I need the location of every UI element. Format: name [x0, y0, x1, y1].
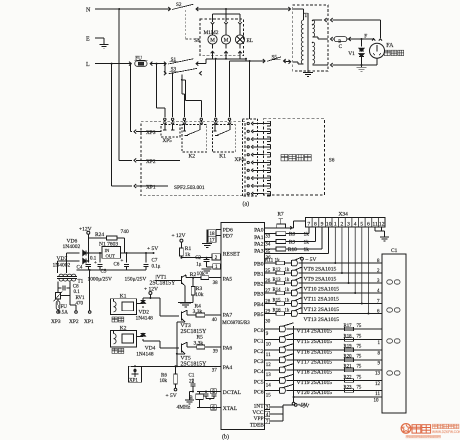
terminal +5V vfd [293, 397, 295, 402]
XP4 contact pin 6 [247, 161, 249, 163]
transformer primary winding [301, 20, 303, 64]
svg-text:4MHz: 4MHz [177, 405, 191, 411]
svg-text:FU: FU [61, 305, 68, 310]
svg-text:12: 12 [375, 382, 381, 387]
wire filament to F [347, 38, 374, 40]
transistor VT10 2SA1015 [285, 282, 292, 284]
capacitor C1b [192, 379, 194, 384]
wire motor drop M2 [225, 14, 227, 22]
transistor VT5 [181, 344, 183, 353]
wire PC2 row [264, 349, 279, 351]
K2 contact [184, 125, 186, 132]
svg-text:9: 9 [378, 361, 381, 366]
wire VT13 collector row [299, 313, 382, 315]
wire K2 to VT5 base [143, 340, 160, 342]
wire PB1 row [264, 272, 276, 274]
svg-text:XP1: XP1 [84, 319, 94, 325]
svg-text:R10: R10 [288, 247, 297, 253]
svg-text:PB2: PB2 [254, 282, 264, 288]
wire to contact c3 [182, 93, 185, 95]
svg-text:R13: R13 [273, 278, 282, 283]
svg-text:OUT: OUT [106, 254, 116, 259]
svg-text:K1: K1 [120, 294, 127, 300]
svg-text:33: 33 [265, 235, 271, 240]
svg-text:– 5V: – 5V [305, 257, 317, 263]
interlock S4 dashed [186, 38, 200, 40]
display segment pair 4 [387, 371, 393, 375]
resistor R15 [276, 302, 285, 306]
wire XP4 feed [249, 60, 251, 62]
wire XP4 pin 9 to membrane [253, 185, 264, 187]
svg-text:FU: FU [135, 55, 142, 61]
wire XP4 pin 7 to membrane [253, 169, 264, 171]
resistor R14 [276, 291, 285, 295]
svg-text:XP2: XP2 [146, 159, 156, 165]
svg-text:VT10 2SA1015: VT10 2SA1015 [304, 287, 340, 293]
svg-text:XP3: XP3 [51, 319, 61, 325]
watermark text [412, 425, 421, 433]
svg-text:IN: IN [105, 248, 111, 253]
switch S5 [263, 59, 265, 63]
diode VD2 [137, 303, 144, 305]
svg-text:17: 17 [210, 239, 216, 244]
connector XP4 box [243, 119, 258, 196]
svg-text:1k: 1k [285, 299, 290, 304]
XP4 contact pin 1 [247, 122, 249, 124]
svg-text:4: 4 [354, 221, 357, 227]
svg-text:R14: R14 [273, 288, 282, 293]
svg-text:R18: R18 [344, 334, 353, 339]
svg-text:X34: X34 [339, 211, 349, 217]
membrane switch pin 7 [264, 169, 270, 171]
wire bus to c6 and S5 [245, 58, 247, 60]
wire S2 interlock dashed [185, 10, 187, 39]
svg-text:S4: S4 [194, 38, 200, 44]
wire VT11 collector row [299, 292, 382, 294]
svg-text:25: 25 [265, 269, 271, 274]
svg-text:8: 8 [314, 221, 317, 227]
wire XP3 feed [130, 63, 132, 65]
svg-text:R6: R6 [161, 373, 167, 378]
relay K2 coil box [110, 331, 136, 347]
svg-text:75: 75 [357, 365, 362, 370]
wire E lead [95, 37, 104, 39]
wire VT14-20 emitter bus [293, 326, 295, 397]
transistor VT15 2SA1015 [279, 337, 281, 343]
svg-text:1N4148: 1N4148 [136, 351, 154, 357]
K1 contact [214, 125, 216, 132]
svg-text:VT20 2SA1015: VT20 2SA1015 [297, 390, 333, 396]
svg-text:VT16 2SA1015: VT16 2SA1015 [297, 349, 333, 355]
label gonglv [112, 317, 117, 322]
resistor R10 [276, 247, 286, 251]
svg-text:10k: 10k [160, 379, 168, 384]
svg-text:VT13 2SA1015: VT13 2SA1015 [304, 317, 340, 323]
XP5 pins [164, 125, 166, 131]
wire PA0 row [264, 227, 293, 229]
svg-text:R19: R19 [344, 345, 353, 350]
transformer T1 [57, 276, 77, 278]
svg-text:PA4: PA4 [223, 365, 233, 371]
svg-text:C1: C1 [391, 248, 398, 254]
svg-text:S2: S2 [176, 2, 182, 8]
wire XTAL row [197, 407, 221, 409]
wire primary top lead [293, 8, 304, 10]
resistor R4 [187, 314, 196, 316]
connector XP5 box [161, 125, 180, 138]
svg-text:12: 12 [266, 363, 272, 368]
svg-text:VT19 2SA1015: VT19 2SA1015 [297, 380, 333, 386]
wire -5V emitter bus [301, 263, 303, 314]
svg-text:10k: 10k [195, 292, 204, 298]
resistor R3 [192, 277, 194, 279]
wire PB5 row [264, 313, 276, 315]
fuse FU [129, 62, 131, 66]
transistor VT18 2SA1015 [279, 367, 281, 373]
svg-text:+: + [94, 261, 97, 266]
transistor VT11 2SA1015 [285, 292, 292, 294]
wire VT9 collector row [299, 272, 382, 274]
transistor VT9 2SA1015 [285, 272, 292, 274]
XP4 contact pin 9 [247, 185, 249, 187]
svg-text:VT17 2SA1015: VT17 2SA1015 [297, 359, 333, 365]
resistor R8 [276, 232, 286, 236]
wire S3 pole tail [181, 75, 183, 95]
wire T1 secondary leads [66, 253, 68, 273]
svg-text:11: 11 [375, 392, 380, 397]
pin 1 box [213, 264, 221, 269]
svg-text:150μ/25V: 150μ/25V [125, 277, 147, 283]
svg-text:1NT: 1NT [254, 404, 265, 410]
contact c2 [171, 118, 173, 120]
transistor VT8 2SA1015 [285, 262, 292, 264]
wire PB4 row [264, 303, 276, 305]
svg-text:1: 1 [334, 221, 337, 227]
resistor R16 [276, 312, 285, 316]
label cikongguan [384, 50, 390, 55]
pin 2 box [212, 254, 220, 260]
wire pin7 [270, 420, 283, 422]
svg-text:C1: C1 [189, 373, 195, 378]
wire XP2 feed [118, 8, 120, 10]
svg-text:XP5: XP5 [163, 138, 173, 144]
svg-text:SPF2.503.001: SPF2.503.001 [174, 185, 205, 191]
svg-text:R16: R16 [273, 309, 282, 314]
svg-text:N: N [86, 8, 91, 14]
pin 4 box [264, 411, 269, 416]
wire VT12 collector row [299, 303, 382, 305]
wire XP4 pin 1 to membrane [253, 123, 264, 125]
wire PA0 up to X34 [290, 226, 292, 229]
svg-text:PC4: PC4 [254, 369, 264, 375]
svg-text:1k: 1k [304, 247, 310, 253]
wire +5V rail [121, 252, 154, 254]
svg-text:PB0: PB0 [254, 262, 264, 268]
svg-text:35: 35 [265, 250, 271, 255]
regulator N1 7803 [102, 247, 121, 259]
wire VT8 collector row [299, 262, 382, 264]
pin 6 box [211, 405, 216, 410]
wire XP1 feed [111, 63, 113, 65]
wire pin3 to +5V [270, 406, 283, 408]
resistor R23 [345, 389, 354, 393]
svg-text:11: 11 [372, 221, 378, 227]
svg-text:K2: K2 [120, 326, 127, 332]
wire motor drop M1 [212, 14, 214, 22]
svg-text:75: 75 [357, 334, 362, 339]
wire VT10 collector row [299, 282, 382, 284]
wire DCTAL row [197, 391, 221, 393]
resistor R7 [277, 224, 286, 228]
svg-text:PC1: PC1 [254, 339, 264, 345]
diode VD7 [58, 260, 80, 262]
wire XP4 pin 4 to membrane [253, 146, 264, 148]
wire filament output [331, 37, 333, 41]
diode V1 [361, 38, 363, 40]
svg-text:+12V: +12V [79, 226, 92, 232]
svg-text:WWW.DZKFW.CON: WWW.DZKFW.CON [432, 430, 460, 434]
svg-text:PC2: PC2 [254, 349, 264, 355]
wire XP4 pin 8 to membrane [253, 177, 264, 179]
svg-text:12: 12 [379, 221, 385, 227]
terminal +5V mcu [283, 404, 294, 406]
wire T1 primary right [69, 282, 71, 285]
XP4 contact pin 7 [247, 169, 249, 171]
wire HT output top [331, 18, 333, 22]
resistor R20 [345, 358, 354, 362]
wire R9 to X34 [286, 241, 316, 243]
wire XP4 pin 5 to membrane [253, 154, 264, 156]
svg-text:38: 38 [213, 281, 219, 286]
transistor VT20 2SA1015 [279, 388, 281, 394]
svg-text:RV1: RV1 [76, 296, 86, 301]
transistor VT13 2SA1015 [285, 313, 292, 315]
earth ground E [100, 44, 109, 46]
svg-text:7: 7 [266, 420, 269, 425]
wire VT19 collector row [287, 380, 382, 382]
display segment pair 2 [387, 308, 393, 312]
svg-text:75: 75 [357, 324, 362, 329]
terminal -5V [301, 257, 304, 260]
transformer T dashed box [293, 5, 328, 71]
ground crystal [190, 391, 194, 393]
svg-text:EL: EL [247, 38, 254, 44]
svg-text:14: 14 [266, 384, 272, 389]
XP4 contact pin 3 [247, 138, 249, 140]
ground VT1 [178, 302, 193, 304]
resistor R5 [187, 346, 197, 348]
svg-text:RESET: RESET [223, 251, 241, 257]
wire VT17 collector row [287, 359, 382, 361]
transistor VT3 [181, 312, 183, 321]
svg-text:PA6: PA6 [223, 346, 233, 352]
switch S1 [164, 62, 166, 66]
svg-text:R23: R23 [344, 385, 353, 390]
motor unit dashed box [200, 19, 244, 56]
diode VD6 [67, 252, 80, 254]
wire VT16 collector row [287, 349, 382, 351]
svg-text:R12: R12 [273, 268, 282, 273]
wire RV1 bridge [69, 292, 71, 305]
svg-text:13: 13 [266, 373, 272, 378]
wire pin36 row [264, 252, 328, 254]
wire XP4 pin 2 to membrane [253, 130, 264, 132]
svg-text:R7: R7 [278, 211, 284, 217]
svg-text:30: 30 [265, 320, 271, 325]
svg-text:VT11 2SA1015: VT11 2SA1015 [304, 297, 340, 303]
svg-text:34: 34 [265, 242, 271, 247]
wire PB0 row [264, 262, 276, 264]
svg-text:XP3: XP3 [146, 130, 156, 136]
wire VT18 collector row [287, 369, 382, 371]
motor M1 [208, 35, 217, 44]
resistor R17 [345, 327, 354, 331]
svg-text:3: 3 [347, 221, 350, 227]
contact c4 [200, 118, 202, 120]
capacitor C4 [86, 264, 91, 266]
wire EL bottom [239, 44, 241, 48]
contact c1 [164, 118, 166, 120]
wire cathode return [331, 63, 333, 67]
svg-text:DCTAL: DCTAL [223, 390, 242, 396]
transistor VT19 2SA1015 [279, 378, 281, 384]
svg-text:PA1: PA1 [254, 235, 264, 241]
resistor R11 [276, 261, 285, 265]
resistor R2 [186, 277, 201, 279]
wire XP4 pin 3 to membrane [253, 138, 264, 140]
contact c6 [228, 118, 230, 120]
svg-text:R8: R8 [289, 232, 296, 238]
transistor VT12 2SA1015 [285, 303, 292, 305]
relay K1 contacts box [212, 125, 235, 153]
resistor R18 [345, 338, 354, 342]
motor M2 [221, 35, 230, 44]
XP4 contact pin 5 [247, 154, 249, 156]
svg-text:FA: FA [386, 43, 394, 49]
wire N line [95, 8, 170, 10]
svg-text:10: 10 [374, 399, 380, 404]
svg-text:8: 8 [378, 351, 381, 356]
svg-text:F: F [364, 33, 367, 39]
svg-text:R24: R24 [95, 232, 104, 238]
wire XP4 pin 6 to membrane [253, 162, 264, 164]
svg-text:1k: 1k [304, 240, 310, 246]
svg-text:0.1: 0.1 [74, 290, 81, 295]
wire pins to gnd [206, 232, 209, 234]
svg-text:6: 6 [212, 406, 215, 411]
svg-text:TDEB: TDEB [250, 422, 264, 428]
svg-text:1N4002: 1N4002 [53, 263, 71, 269]
svg-text:+ 5V: + 5V [147, 246, 158, 252]
lamp EL [235, 35, 244, 44]
svg-text:R22: R22 [344, 375, 353, 380]
svg-text:K2: K2 [189, 153, 196, 159]
svg-text:39: 39 [213, 349, 219, 354]
pin 5 box [211, 389, 216, 394]
contact c5 [215, 118, 217, 120]
terminal XP3b [57, 310, 59, 311]
svg-text:7: 7 [307, 221, 310, 227]
svg-text:10: 10 [326, 221, 332, 227]
wire XP4 pin 10 to membrane [253, 193, 264, 195]
wire filter common [88, 269, 146, 271]
svg-text:C: C [339, 44, 343, 50]
svg-text:1k: 1k [285, 278, 290, 283]
svg-text:0.1μ: 0.1μ [152, 264, 161, 269]
watermark logo [401, 424, 411, 434]
wire to contact c6 [229, 61, 231, 117]
svg-text:1μ: 1μ [196, 262, 202, 267]
pin 7 box [264, 419, 269, 424]
svg-text:M: M [224, 38, 229, 44]
relay K2 contacts box [182, 125, 207, 153]
svg-text:4: 4 [266, 413, 269, 418]
contact c3 [183, 118, 185, 120]
wire PC4 row [264, 369, 279, 371]
svg-text:PC0: PC0 [254, 328, 264, 334]
svg-text:VD7: VD7 [57, 256, 68, 262]
wire to contact c1 [156, 63, 158, 65]
svg-text:2: 2 [341, 221, 344, 227]
svg-text:+ 5V: + 5V [166, 393, 177, 399]
connector XP3 [134, 130, 136, 134]
svg-text:M1M2: M1M2 [204, 30, 219, 36]
crystal B [199, 392, 201, 395]
svg-text:L: L [86, 62, 90, 68]
display C1 box [382, 254, 406, 413]
core ground [307, 70, 309, 72]
connector XP2 [134, 158, 136, 162]
svg-text:PA2: PA2 [254, 241, 264, 247]
svg-text:740: 740 [121, 229, 130, 235]
resistor R22 [345, 379, 354, 383]
svg-text:XP1: XP1 [146, 185, 156, 191]
membrane switch pin 10 [264, 193, 270, 195]
svg-text:5: 5 [360, 221, 363, 227]
switch S3 [164, 71, 166, 75]
resistor R6 [175, 365, 177, 367]
transistor VT17 2SA1015 [279, 357, 281, 363]
svg-text:R20: R20 [344, 355, 353, 360]
svg-text:C6: C6 [114, 263, 120, 268]
wire PA2 row [264, 241, 276, 243]
svg-text:26: 26 [265, 279, 271, 284]
svg-text:VT9 2SA1015: VT9 2SA1015 [304, 277, 337, 283]
svg-text:1k: 1k [285, 288, 290, 293]
resistor R24 [88, 237, 106, 239]
svg-text:13: 13 [375, 371, 381, 376]
svg-text:75: 75 [357, 375, 362, 380]
membrane switch pin 9 [264, 185, 270, 187]
svg-text:E: E [86, 37, 90, 43]
transformer core [306, 13, 308, 70]
wire S3 branch [164, 63, 166, 65]
svg-text:R15: R15 [273, 299, 282, 304]
wire T1 primary left [57, 282, 59, 285]
wire PB3 row [264, 292, 276, 294]
wire PA4 bus [131, 365, 221, 367]
svg-text:10: 10 [266, 343, 272, 348]
wire PC1 row [264, 339, 279, 341]
wire to contact c4 [182, 79, 186, 81]
svg-text:1N4002: 1N4002 [63, 244, 81, 250]
svg-text:C8: C8 [73, 284, 79, 289]
connector X34 [306, 217, 386, 227]
XP4 contact pin 8 [247, 177, 249, 179]
transistor VT14 2SA1015 [279, 326, 281, 332]
diode VD4 [137, 335, 144, 337]
membrane switch pin 2 [264, 130, 270, 132]
